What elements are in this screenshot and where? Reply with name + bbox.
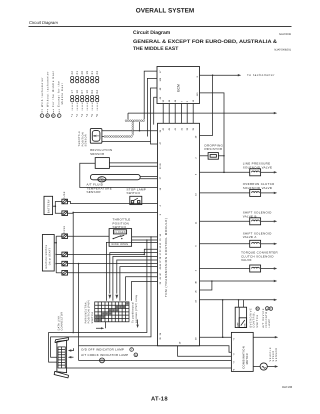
wire shift valve B out	[261, 220, 275, 222]
wire temp sensor sig2	[140, 178, 157, 180]
svg-text:SENSOR: SENSOR	[84, 134, 87, 146]
to pnp relay label	[132, 294, 138, 323]
wire fan pin 252 arrow	[110, 253, 158, 294]
wire fuse4 to pnp node	[68, 253, 145, 255]
svg-text:22: 22	[71, 71, 74, 75]
wire dlc to meter ground	[65, 367, 231, 369]
connector strip H2	[104, 136, 132, 138]
legend circle W lamp	[134, 353, 138, 357]
legend column *3	[81, 71, 85, 117]
stop lamp switch S2	[130, 196, 142, 204]
svg-text:SWITCH: SWITCH	[127, 191, 141, 195]
throttle position switch S3	[109, 229, 132, 247]
wire battery out	[53, 205, 56, 207]
wire fan pin 260 arrow	[117, 260, 158, 294]
svg-text:*2: *2	[76, 114, 79, 117]
dlc arrow 2	[71, 356, 74, 358]
ignition switch S5	[42, 235, 54, 272]
wire torque converter valve out	[261, 268, 275, 270]
wire fuse5 to tcm	[68, 263, 158, 265]
indicator lamp LP1	[79, 359, 232, 361]
fuse F4	[56, 253, 62, 255]
wire power down dlc	[72, 212, 74, 332]
svg-text:Circuit Diagram: Circuit Diagram	[29, 20, 58, 25]
legend leaders	[42, 110, 59, 114]
a/t fluid temperature sensor label	[87, 183, 112, 195]
svg-text:HAT133: HAT133	[282, 385, 292, 389]
svg-text:OFF: OFF	[236, 322, 239, 327]
node fuse5 branch	[78, 263, 80, 265]
data link connector label	[57, 312, 63, 331]
vehicle speed sensor G1	[260, 363, 267, 370]
wire revolution sensor shield	[80, 163, 158, 187]
wire fan pin 266	[120, 267, 158, 301]
throttle position sensor label	[78, 131, 87, 147]
svg-text:ON or START: ON or START	[49, 248, 52, 266]
svg-text:*4: *4	[86, 114, 89, 117]
wire long signal line	[128, 112, 275, 114]
svg-text:GENERAL & EXCEPT FOR EURO-OBD,: GENERAL & EXCEPT FOR EURO-OBD, AUSTRALIA…	[133, 39, 277, 45]
wire TCM to overrun clutch valve	[200, 192, 250, 194]
legend column *1	[71, 71, 75, 117]
throttle position switch label	[113, 218, 131, 230]
data link connector pin grid	[58, 347, 65, 368]
svg-text:: Except for the: : Except for the	[58, 81, 61, 110]
vehicle speed sensor label	[269, 347, 278, 362]
fuse F1	[62, 199, 68, 204]
svg-text:THE MIDDLE EAST: THE MIDDLE EAST	[133, 46, 178, 52]
wire TCM pin19 speedo	[200, 299, 275, 301]
dlc arrow 1	[71, 348, 74, 350]
svg-text:SWITCH: SWITCH	[256, 314, 259, 327]
wire fan pin 276	[126, 277, 158, 301]
connector strip V1	[132, 120, 134, 135]
wire temp sensor sig1	[140, 175, 157, 177]
wire battery to fuse1	[55, 202, 62, 207]
wire signal line start	[127, 113, 129, 119]
legend circle T lamp	[130, 348, 134, 352]
node od a	[238, 299, 240, 301]
svg-text:04: 04	[96, 90, 99, 94]
svg-text:07: 07	[81, 90, 84, 94]
legend circle T od	[266, 307, 269, 310]
svg-text:: With tachometer: : With tachometer	[41, 77, 44, 110]
wire fan pin 281	[132, 282, 158, 301]
fuse F2	[62, 211, 68, 216]
node tp dot2	[146, 239, 148, 241]
wire speed sensor out	[267, 366, 275, 368]
fuse F3	[56, 235, 62, 237]
wire TCM to torque converter valve	[200, 268, 250, 270]
wire ignition out	[54, 242, 56, 244]
combination meter	[231, 332, 253, 371]
wire lamp feed down	[78, 264, 80, 346]
lamp box wire left	[78, 346, 80, 361]
wire revolution sensor sig2	[109, 165, 157, 167]
node tp dot	[150, 236, 152, 238]
svg-text:OVERALL SYSTEM: OVERALL SYSTEM	[136, 8, 194, 15]
svg-text:Middle East: Middle East	[61, 83, 64, 105]
wire TCM to dropping resistor	[200, 155, 209, 157]
legend label without tachometer	[46, 71, 50, 118]
overrun clutch solenoid valve L2	[250, 189, 261, 196]
wire TCM pin29 to tach line	[200, 75, 213, 135]
overdrive control switch label	[249, 308, 258, 328]
ECM U1	[157, 67, 200, 104]
wire speedo to combination meter	[222, 300, 224, 337]
fuse F6	[56, 272, 62, 274]
legend column *5	[91, 71, 95, 117]
svg-text:VALVE: VALVE	[241, 258, 252, 262]
a/t fluid temperature sensor RT1	[90, 174, 140, 179]
svg-text:18: 18	[76, 90, 79, 94]
svg-text:BATTERY: BATTERY	[47, 199, 50, 213]
svg-text:*6: *6	[96, 114, 99, 117]
wire throttle switch closed out	[132, 236, 158, 238]
wire ecm pin48 bus	[151, 88, 158, 142]
wire tps signal 1	[102, 130, 158, 132]
TCM U2	[158, 123, 200, 345]
wire ECM pin110 down	[200, 93, 225, 172]
wire dlc branch b	[51, 237, 151, 357]
wire meter to speed sensor	[253, 366, 260, 368]
shift solenoid valve A L4	[250, 240, 261, 247]
arrow speedo 299.8	[274, 299, 277, 301]
svg-text:*3: *3	[81, 114, 84, 117]
data link connector J1	[57, 340, 67, 372]
node meter junction	[222, 336, 224, 338]
svg-text:31: 31	[91, 71, 94, 75]
node fuse2 branch	[72, 212, 74, 214]
arrow meter out	[275, 336, 278, 338]
shift solenoid valve B L3	[250, 218, 261, 225]
TCM right pin labels	[195, 135, 198, 340]
svg-text:CLOSED: CLOSED	[114, 231, 126, 234]
wire battery to fuse2	[55, 206, 62, 213]
header rule	[29, 26, 292, 28]
wire TCM to shift valve A	[200, 243, 250, 245]
node speedo branch	[222, 299, 224, 301]
pnp arrow out	[96, 322, 106, 329]
wire TCM to line pressure valve	[200, 171, 250, 173]
overdrive control switch S1	[235, 307, 246, 327]
svg-text:O/D OFF INDICATOR LAMP: O/D OFF INDICATOR LAMP	[81, 348, 124, 352]
legend label with tachometer	[40, 77, 44, 118]
wire fuse1 to stop lamp switch	[68, 202, 158, 204]
wire TCM pin48 ground	[200, 280, 275, 282]
wire tachometer output	[200, 74, 239, 76]
wire throttle switch wideopen out	[132, 239, 158, 241]
wire tps signal 3	[102, 142, 158, 145]
line pressure solenoid valve L1	[250, 169, 261, 176]
svg-text:T: T	[41, 115, 43, 118]
legend column *6	[96, 71, 100, 117]
a/t device label	[262, 308, 271, 328]
lamp box wire top	[79, 346, 232, 353]
wire tcm bottom to meter	[178, 346, 232, 356]
svg-text:: Without tachometer: : Without tachometer	[46, 71, 49, 110]
node tach junction	[212, 74, 214, 76]
svg-text:A/T CHECK INDICATOR LAMP: A/T CHECK INDICATOR LAMP	[81, 353, 128, 357]
wire revolution sensor sig1	[109, 162, 157, 164]
wire fan pin 242	[106, 242, 157, 300]
svg-text:: For the Middle East: : For the Middle East	[52, 70, 55, 110]
svg-text:METER: METER	[245, 353, 249, 364]
fuse F5	[56, 263, 62, 265]
throttle position sensor RV1	[90, 129, 102, 144]
svg-text:RESISTOR: RESISTOR	[205, 147, 223, 151]
svg-text:M: M	[52, 115, 55, 118]
svg-text:19: 19	[86, 71, 89, 75]
svg-text:10: 10	[86, 90, 89, 94]
wire shift valve A out	[261, 243, 275, 245]
svg-text:17: 17	[71, 90, 74, 94]
svg-text:ON: ON	[243, 323, 246, 327]
svg-text:TCM (TRANSMISSION CONTROL MODU: TCM (TRANSMISSION CONTROL MODULE)	[164, 218, 168, 297]
svg-text:SENSOR: SENSOR	[90, 152, 104, 156]
svg-text:Circuit Diagram: Circuit Diagram	[133, 30, 171, 36]
wire tps junction up	[139, 122, 141, 131]
dropping resistor R1	[208, 153, 218, 160]
svg-text:CONNECTOR: CONNECTOR	[61, 312, 64, 331]
node tps junction	[139, 130, 141, 132]
arrow ground 281	[274, 280, 277, 282]
wire dlc branch a	[49, 240, 147, 362]
svg-text:NJAT0008S01: NJAT0008S01	[274, 49, 291, 52]
wire fuse3 to throttle switch	[68, 235, 110, 237]
ECM to TCM wires	[163, 104, 193, 124]
wire fuse2 to tcm	[68, 211, 158, 214]
wire ecm pin109 bus	[147, 78, 157, 136]
svg-text:FUSE: FUSE	[63, 191, 66, 199]
wire meter top right out	[253, 336, 275, 338]
node jumper 281	[211, 280, 213, 282]
node fan 254	[144, 254, 146, 256]
arrow overrun clutch out	[274, 192, 277, 194]
park neutral position switch label	[84, 300, 93, 324]
torque converter clutch solenoid valve L5	[250, 265, 261, 272]
legend label for the middle east	[52, 70, 56, 117]
wire od switch to speedo line b	[242, 300, 244, 307]
svg-text:*5: *5	[91, 114, 94, 117]
wire fan pin 249 to fuse line	[144, 249, 157, 254]
svg-text:W: W	[46, 115, 49, 118]
wire TCM to shift valve B	[200, 220, 250, 222]
legend column *4	[86, 71, 90, 117]
svg-text:SWITCH: SWITCH	[91, 312, 94, 324]
wire fuse6 to tcm	[68, 272, 158, 274]
arrow shift valve B out	[274, 220, 277, 222]
node battery	[55, 205, 57, 207]
svg-text:ECM: ECM	[177, 84, 181, 92]
wire overrun clutch valve out	[261, 192, 275, 194]
wire ecm pin17 bus	[144, 71, 157, 119]
svg-text:To tachometer: To tachometer	[247, 73, 275, 77]
svg-text:23: 23	[96, 71, 99, 75]
svg-text:E: E	[58, 115, 60, 118]
arrow to tachometer	[238, 74, 241, 76]
wire dropping resistor to node	[218, 155, 224, 157]
wire fan pin 256	[113, 256, 158, 300]
svg-text:*1: *1	[71, 114, 74, 117]
connector strip H1	[125, 120, 144, 122]
TCM left pin labels	[159, 129, 162, 340]
node ignition	[55, 242, 57, 244]
node dropping resistor junction	[223, 155, 225, 157]
svg-text:SENSOR: SENSOR	[87, 190, 101, 194]
ECM bottom pins 53 49 46 7 3 10	[162, 99, 195, 102]
wire TCM to meter pin1	[200, 336, 232, 338]
legend column *2	[76, 71, 80, 117]
wire tps signal 2	[102, 136, 104, 138]
node power dlc	[72, 332, 74, 334]
wire line pressure valve out	[261, 171, 275, 173]
svg-text:03: 03	[91, 90, 94, 94]
svg-text:FUSE: FUSE	[63, 226, 66, 234]
svg-text:position (PNP) relay: position (PNP) relay	[135, 294, 138, 323]
svg-text:LAMP: LAMP	[268, 319, 271, 328]
svg-text:SENSOR: SENSOR	[275, 348, 278, 362]
wire ignition bus	[55, 236, 57, 273]
svg-text:NJAT0008: NJAT0008	[279, 33, 292, 36]
svg-text:20: 20	[81, 71, 84, 75]
arrow torque converter out	[274, 267, 277, 269]
battery B1	[44, 196, 53, 214]
arrow speed sensor out	[275, 365, 278, 367]
wire od switch to speedo line a	[238, 300, 240, 307]
svg-text:AT-18: AT-18	[151, 396, 168, 403]
arrow long signal line	[274, 112, 277, 114]
legend label except for the middle east	[57, 81, 64, 118]
node line pressure junction	[223, 172, 225, 174]
arrow pnp relay	[137, 320, 139, 325]
legend circle E od	[269, 307, 272, 310]
TCM top pins 42 45 41 31 38 35	[162, 127, 195, 130]
wire ecm pin40 bus	[154, 97, 157, 124]
wire jumper 281-290	[200, 281, 212, 290]
arrow shift valve A out	[274, 243, 277, 245]
park neutral position switch S4 grid	[95, 302, 129, 322]
arrow line pressure out	[274, 171, 277, 173]
svg-text:21: 21	[76, 71, 79, 75]
svg-text:WIDE OPEN: WIDE OPEN	[111, 243, 128, 246]
svg-text:VALVE A: VALVE A	[243, 235, 257, 239]
revolution sensor G2	[95, 158, 109, 169]
legend circle W od	[256, 307, 259, 310]
